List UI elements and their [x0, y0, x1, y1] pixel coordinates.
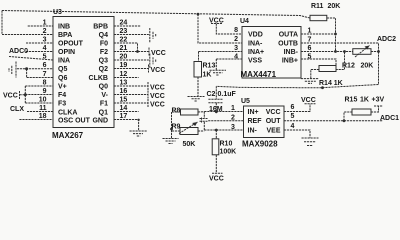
svg-text:VCC: VCC: [266, 109, 281, 116]
svg-text:F1: F1: [100, 101, 108, 108]
svg-text:13: 13: [120, 80, 128, 87]
svg-text:VCC: VCC: [151, 50, 166, 57]
svg-text:3: 3: [231, 124, 235, 131]
wire U3 pin14 stub: [114, 111, 139, 113]
svg-text:GND: GND: [92, 118, 108, 125]
wire feedback ADC2 to C2: [216, 52, 378, 88]
svg-text:INA: INA: [58, 58, 70, 65]
svg-text:CLX: CLX: [10, 106, 24, 113]
wire U3 pin11 CLKA: [27, 111, 53, 113]
wire U3 pin9: [25, 94, 53, 96]
wire U3 pin5 INA: [9, 57, 53, 61]
power +3V bar: [374, 105, 383, 107]
svg-text:6: 6: [308, 45, 312, 52]
svg-text:VCC: VCC: [150, 84, 165, 91]
svg-text:VCC: VCC: [209, 175, 224, 182]
capacitor C2 0.1uF: [215, 86, 217, 111]
svg-text:BPA: BPA: [58, 32, 72, 39]
svg-text:MAX9028: MAX9028: [242, 140, 278, 149]
U4 pin numbers: [234, 27, 238, 61]
svg-text:20K: 20K: [361, 62, 374, 69]
wire U5 pin3 row: [204, 129, 243, 131]
power VCC bar row19: [148, 65, 150, 73]
svg-text:1: 1: [43, 20, 47, 27]
wire U3 pin10: [25, 102, 53, 104]
svg-text:F3: F3: [58, 101, 66, 108]
svg-text:Q0: Q0: [99, 84, 108, 91]
wire U3 pin16 to VCC: [114, 94, 148, 96]
svg-text:Q1: Q1: [99, 110, 108, 117]
svg-text:8: 8: [43, 80, 47, 87]
svg-text:4: 4: [291, 123, 295, 130]
ground U3 pin17: [130, 131, 148, 136]
power VCC bar row13: [147, 82, 149, 90]
svg-text:100K: 100K: [220, 149, 237, 156]
resistor R14 1K: [319, 66, 336, 72]
wire U3 pin24 stub: [114, 25, 141, 27]
wire U5 pin6 to VCC: [284, 104, 310, 112]
svg-text:5: 5: [291, 113, 295, 120]
svg-text:Q3: Q3: [99, 58, 108, 65]
power VCC bar row16: [147, 91, 149, 99]
svg-text:2: 2: [43, 28, 47, 35]
wire U3 pin1 stub: [28, 25, 53, 27]
svg-text:15: 15: [120, 97, 128, 104]
svg-text:21: 21: [120, 45, 128, 52]
svg-text:OSC OUT: OSC OUT: [58, 118, 91, 125]
svg-text:12: 12: [120, 71, 128, 78]
svg-text:ADC0: ADC0: [9, 48, 28, 55]
svg-text:4: 4: [43, 45, 47, 52]
wire pins8-10 tie: [20, 86, 26, 103]
svg-text:INB+: INB+: [282, 58, 298, 65]
svg-text:INA-: INA-: [248, 41, 263, 48]
wire U4 pin2 from top net: [198, 14, 242, 43]
svg-text:F4: F4: [58, 92, 66, 99]
svg-text:3: 3: [234, 45, 238, 52]
svg-text:OPIN: OPIN: [58, 49, 75, 56]
resistor R10 100K: [212, 139, 219, 155]
svg-text:17: 17: [120, 113, 128, 120]
wire U3 pin15 to VCC: [114, 102, 148, 104]
wire U4 pin6 INB-: [301, 51, 353, 53]
ground U5 pin4: [302, 138, 319, 146]
power VCC bar left: [19, 91, 21, 99]
svg-text:U4: U4: [240, 18, 249, 25]
svg-text:2: 2: [231, 115, 235, 122]
svg-text:1: 1: [231, 105, 235, 112]
op-amp U3 MAX267 box: [53, 17, 114, 128]
svg-text:VCC: VCC: [301, 97, 316, 104]
svg-text:R10: R10: [220, 141, 233, 148]
svg-text:1: 1: [308, 28, 312, 35]
svg-text:CLKB: CLKB: [89, 75, 108, 82]
svg-text:INA+: INA+: [248, 49, 264, 56]
ground sideways at Q5/Q6: [9, 62, 16, 78]
power VCC below R10: [212, 172, 223, 174]
svg-text:14: 14: [120, 105, 128, 112]
U3 right pin numbers: [120, 20, 128, 121]
resistor R12 20K pot: [353, 49, 371, 55]
ground sideways at Q3: [150, 54, 156, 69]
wire U3 pin17 GND: [114, 120, 139, 132]
svg-text:OPOUT: OPOUT: [58, 41, 84, 48]
svg-text:VEE: VEE: [266, 127, 280, 134]
wire U4 pin5 INB+ to R14: [301, 59, 336, 66]
svg-text:F2: F2: [100, 49, 108, 56]
wire U3 pin3 stub: [26, 42, 53, 44]
svg-text:11: 11: [39, 105, 47, 112]
svg-text:OUTB: OUTB: [278, 41, 298, 48]
op-amp U4 MAX4471 box: [242, 27, 301, 79]
svg-text:6: 6: [43, 62, 47, 69]
svg-text:VDD: VDD: [248, 32, 263, 39]
svg-text:24: 24: [120, 20, 128, 27]
wire U3 pin21 to VCC: [114, 51, 149, 53]
wire U4 pin4 to ground: [216, 59, 242, 70]
wire U4 pin7 OUTB to ADC2: [301, 43, 379, 52]
wire U5 pin2 row: [208, 120, 243, 122]
svg-text:2: 2: [234, 36, 238, 43]
svg-text:V+: V+: [58, 84, 67, 91]
svg-text:19: 19: [120, 62, 128, 69]
wire U3 pin6: [17, 68, 53, 70]
wire pins6-7 tie: [26, 69, 28, 78]
svg-text:Q4: Q4: [99, 32, 108, 39]
svg-text:R14 1K: R14 1K: [319, 80, 343, 87]
svg-text:7: 7: [308, 37, 312, 44]
U5 interior left pin labels: [248, 109, 263, 135]
power VCC bar row15: [147, 99, 149, 107]
svg-text:10: 10: [39, 97, 47, 104]
U3 interior right pin labels: [89, 24, 109, 125]
svg-text:IN+: IN+: [248, 109, 259, 116]
resistor R13 1K: [194, 62, 202, 78]
resistor R15 1K: [344, 112, 352, 121]
U5 pin numbers: [231, 104, 295, 131]
wire U3 pin12 stub: [114, 77, 139, 79]
wire U3 pin22 to pin21: [114, 43, 138, 52]
wire U3 pin19 to VCC: [114, 68, 149, 70]
svg-text:OUTA: OUTA: [279, 32, 298, 39]
power VCC bar row21: [148, 48, 150, 56]
svg-text:0.1uF: 0.1uF: [218, 91, 237, 98]
U4 interior left pin labels: [248, 32, 264, 65]
svg-text:ADC1: ADC1: [380, 115, 399, 122]
svg-text:R11: R11: [311, 3, 324, 10]
ground sideways at Q4: [150, 28, 156, 43]
wire U3 pin18 stub: [19, 119, 53, 121]
wire U3 pin20: [114, 59, 149, 61]
wire U3 pin7: [27, 77, 53, 79]
svg-text:20: 20: [120, 54, 128, 61]
svg-text:9: 9: [43, 88, 47, 95]
wire U3 pin4 stub: [26, 51, 53, 53]
svg-text:CLKA: CLKA: [58, 110, 77, 117]
ground R13: [188, 97, 205, 102]
svg-text:R8: R8: [172, 108, 181, 115]
svg-text:MAX267: MAX267: [52, 131, 84, 140]
svg-text:VCC: VCC: [150, 93, 165, 100]
wire U4 pin1 OUTA: [301, 33, 336, 35]
svg-text:IN-: IN-: [248, 127, 258, 134]
node junction top net to U4 pin2: [197, 13, 200, 16]
wire U5 pin5 OUT to ADC1: [284, 120, 383, 122]
svg-text:R15: R15: [345, 96, 358, 103]
svg-text:16: 16: [120, 88, 128, 95]
wire U4 pin8: [216, 24, 242, 35]
svg-text:50K: 50K: [183, 141, 196, 148]
svg-text:3: 3: [43, 37, 47, 44]
crystal 16M: [203, 112, 205, 131]
svg-text:Q6: Q6: [58, 75, 67, 82]
svg-text:MAX4471: MAX4471: [241, 70, 277, 79]
U3 interior left pin labels: [58, 24, 91, 125]
svg-text:8: 8: [234, 27, 238, 34]
ground R8/R9: [163, 139, 179, 144]
wire left loop to U3 pin2 BPA: [2, 11, 53, 35]
svg-text:OUT: OUT: [266, 118, 282, 125]
wire U5 pin1 row: [204, 111, 243, 113]
ground U4 pin4: [210, 70, 227, 75]
svg-text:6: 6: [291, 104, 295, 111]
svg-text:1K: 1K: [203, 72, 212, 79]
svg-text:+3V: +3V: [372, 96, 385, 103]
svg-text:VCC: VCC: [3, 93, 18, 100]
wire U4 pin3: [199, 52, 243, 62]
wire U3 pin13 to VCC: [114, 85, 148, 87]
svg-text:U3: U3: [53, 9, 62, 16]
svg-text:U5: U5: [241, 98, 250, 105]
svg-text:C2: C2: [207, 91, 216, 98]
svg-text:REF: REF: [248, 118, 263, 125]
svg-text:V-: V-: [101, 92, 108, 99]
svg-text:INB-: INB-: [284, 49, 299, 56]
wire U3 pin8: [25, 85, 53, 87]
svg-text:VCC: VCC: [151, 67, 166, 74]
svg-text:20K: 20K: [328, 3, 341, 10]
svg-text:23: 23: [120, 28, 128, 35]
svg-text:R13: R13: [203, 63, 216, 70]
svg-text:VSS: VSS: [248, 58, 262, 65]
wire top net BPA to U4 INA-: [2, 11, 310, 19]
svg-text:22: 22: [120, 37, 128, 44]
wire U3 pin23: [114, 34, 149, 36]
U3 left pin numbers: [39, 20, 47, 121]
svg-text:Q5: Q5: [58, 66, 67, 73]
comparator U5 MAX9028 box: [244, 106, 285, 138]
svg-text:F0: F0: [100, 41, 108, 48]
svg-text:VCC: VCC: [150, 101, 165, 108]
svg-text:BPB: BPB: [93, 24, 108, 31]
U4 interior right pin labels: [278, 32, 299, 65]
ground R14: [301, 79, 319, 84]
svg-text:ADC2: ADC2: [377, 36, 396, 43]
svg-text:18: 18: [39, 113, 47, 120]
wire U5 pin4 to ground: [284, 130, 310, 138]
svg-text:INB: INB: [58, 24, 70, 31]
svg-text:7: 7: [43, 71, 47, 78]
U5 interior right pin labels: [266, 109, 282, 135]
svg-text:Q2: Q2: [99, 66, 108, 73]
svg-text:1K: 1K: [360, 96, 369, 103]
svg-text:R12: R12: [342, 62, 355, 69]
